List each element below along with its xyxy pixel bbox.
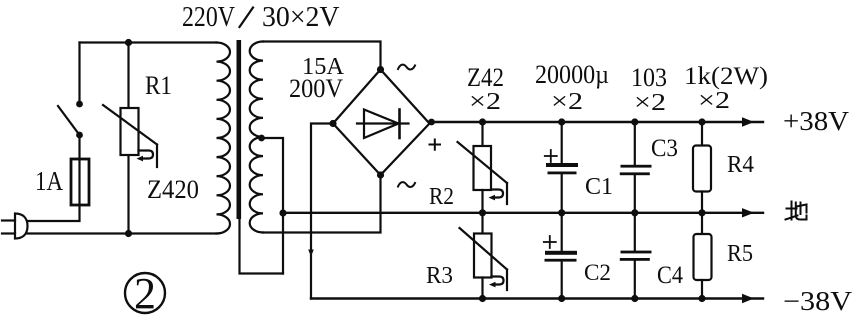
svg-text:220V: 220V (182, 2, 235, 33)
node bridge + on rail (428, 119, 435, 126)
capacitor C2 electrolytic (544, 213, 577, 302)
svg-text:30×2V: 30×2V (262, 2, 340, 33)
varistor R2 (458, 118, 508, 212)
switch S1 (58, 43, 83, 139)
svg-text:×2: ×2 (698, 88, 730, 114)
capacitor C3 (620, 118, 652, 216)
svg-text:200V: 200V (289, 74, 343, 103)
svg-text:R2: R2 (429, 184, 454, 210)
wire top-left rail (80, 41, 217, 43)
arrow ground (742, 208, 754, 217)
transformer T1 secondary winding (250, 42, 263, 233)
node junction R1 bottom (125, 230, 132, 237)
svg-text:R3: R3 (426, 263, 453, 289)
arrow current direction down (308, 250, 314, 257)
varistor R1 (Z420) (103, 43, 157, 234)
wire fuse to switch (78, 135, 80, 159)
wire core ground lead (240, 219, 284, 274)
wire secondary center tap (262, 138, 284, 274)
svg-text:R5: R5 (727, 241, 753, 267)
wire -38V rail (311, 297, 763, 299)
svg-text:20000µ: 20000µ (535, 60, 609, 89)
svg-text:C2: C2 (584, 260, 611, 285)
svg-text:Z420: Z420 (147, 175, 199, 204)
node R2/R3 ground (479, 209, 486, 216)
fuse 1A (71, 159, 89, 205)
node junction R1 top (125, 39, 132, 46)
svg-text:×2: ×2 (551, 89, 583, 115)
wire secondary bottom to bridge (263, 175, 381, 233)
capacitor C4 (620, 213, 652, 302)
label 220V/30x2V (182, 2, 340, 33)
svg-text:C3: C3 (651, 135, 678, 162)
svg-text:+38V: +38V (783, 106, 850, 136)
svg-text:C1: C1 (585, 174, 613, 200)
plug P1 (2, 214, 28, 239)
label ~ top (398, 65, 415, 70)
resistor R5 (694, 213, 712, 302)
resistor R4 (693, 118, 711, 216)
svg-text:103: 103 (631, 63, 667, 92)
svg-text:C4: C4 (657, 262, 683, 289)
svg-text:2: 2 (134, 269, 156, 318)
wire secondary top to bridge (263, 42, 381, 70)
wire +38V rail (430, 121, 764, 123)
transformer core (237, 40, 242, 219)
capacitor C1 electrolytic (545, 118, 578, 216)
arrow -38V (742, 294, 754, 303)
svg-text:R4: R4 (727, 152, 754, 178)
wire plug top prong to fuse (28, 205, 80, 221)
wire bottom-left rail (28, 232, 217, 234)
node ground tee (279, 209, 286, 216)
varistor R3 (460, 213, 508, 302)
wire bridge negative to -38V rail (311, 124, 333, 299)
label + output (430, 140, 441, 150)
label ~ bottom (398, 182, 415, 187)
arrow +38V (742, 117, 754, 126)
svg-text:×2: ×2 (469, 89, 501, 115)
svg-text:×2: ×2 (634, 90, 666, 116)
figure number 2 (125, 269, 165, 318)
wire ground rail (283, 212, 763, 214)
svg-text:Z42: Z42 (467, 63, 504, 92)
svg-text:R1: R1 (145, 71, 172, 100)
label ground 地 (786, 202, 807, 220)
bridge rectifier D1 15A 200V (329, 66, 429, 179)
svg-text:1k(2W): 1k(2W) (684, 63, 768, 90)
svg-text:1A: 1A (35, 166, 63, 196)
transformer T1 primary winding (217, 43, 231, 234)
svg-text:−38V: −38V (783, 286, 853, 316)
node center tap (258, 135, 265, 142)
